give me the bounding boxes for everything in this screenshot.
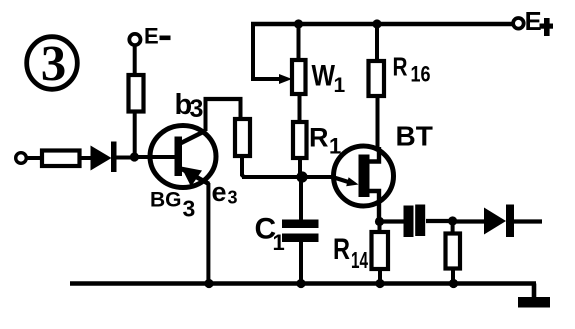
svg-text:1: 1 [273,230,285,255]
wire node to C1 [299,177,303,221]
wire collector top horizontal [204,97,243,101]
svg-text:e: e [212,177,227,207]
wire node to output diode [455,219,485,223]
diode (output) [484,205,514,238]
wire emitter junction to R14 [378,222,382,234]
wire W1 to R1 [298,94,302,123]
wire bus to ground symbol [532,284,537,300]
label BG3 [150,189,195,222]
label R16 [393,52,431,87]
resistor R16 [369,61,385,96]
wire base line of BT [242,175,335,179]
node C1 on ground bus [296,279,305,288]
power rail E+ [251,22,512,26]
wire diode to output end [514,219,542,223]
wire load resistor to ground bus [451,269,455,285]
wire resistor to base line corner [242,156,244,177]
resistor (load) [446,234,461,269]
svg-text:E: E [144,24,159,49]
ground [518,297,550,308]
svg-text:3: 3 [41,37,67,93]
wire diode to junction [117,156,137,160]
wire resistor to diode [80,156,92,160]
label R14 [333,233,368,273]
label b3 [175,89,204,123]
node load junction [448,216,457,225]
potentiometer W1 wiper arrow [279,74,292,84]
wire rail to W1 [297,24,301,61]
wire BG3 collector riser [204,99,208,131]
svg-text:E: E [525,8,542,36]
label W1 [312,60,346,98]
wire emitter junction to output capacitor [380,219,405,223]
wire base of BG3 [136,155,176,159]
transistor BT [334,146,394,222]
wire node to load resistor [451,221,455,234]
svg-text:R: R [309,123,329,153]
resistor R1 [293,122,307,158]
label C1 [255,213,285,256]
wire BG3 emitter riser [206,183,210,284]
resistor (BG3 collector coupling) [235,119,250,156]
wire R1 to node [298,158,302,177]
wire capacitor to load node [426,219,454,223]
input terminal [16,153,27,164]
svg-text:R: R [333,233,350,266]
wire C1 to ground bus [299,242,303,284]
diode D1 (input) [91,142,117,173]
svg-text:BT: BT [396,121,433,152]
svg-text:3: 3 [228,188,238,208]
resistor (E- bias) [129,75,144,112]
resistor R14 [372,232,389,269]
capacitor C1 [282,220,319,243]
wire down to coupling resistor [239,99,243,120]
wire rail to W1 wiper [253,24,285,79]
svg-text:16: 16 [411,62,431,87]
label R1 [309,123,341,159]
node load resistor on ground bus [449,279,458,288]
capacitor (output coupling) [404,205,426,238]
terminal E+ [513,8,553,36]
wire input terminal to resistor [27,156,44,160]
svg-text:W: W [312,60,336,93]
figure number 3 [27,37,78,93]
node R16 top on rail [372,19,381,28]
node BT emitter junction [375,217,384,226]
wire R14 to ground bus [378,269,382,284]
terminal E- [129,24,170,49]
ground bus [70,281,536,286]
svg-text:R: R [393,52,408,82]
node base/C1 junction [296,171,307,182]
svg-text:BG: BG [150,189,182,212]
svg-text:3: 3 [183,196,196,222]
svg-text:14: 14 [351,247,368,273]
node W1 top on rail [294,19,303,28]
transistor BG3 [150,126,216,188]
wire rail to R16 [375,24,379,62]
wire resistor to junction [133,112,137,156]
node BG3 emitter on ground bus [204,279,213,288]
wire E- terminal to resistor [133,46,137,76]
node R14 on ground bus [375,279,384,288]
node (input/base junction) [130,152,139,161]
wire R16 to BT collector [376,96,380,147]
svg-text:1: 1 [334,74,346,97]
potentiometer W1 [292,60,306,94]
svg-text:3: 3 [190,95,204,123]
resistor (input series) [42,151,80,167]
label e3 [212,177,238,208]
